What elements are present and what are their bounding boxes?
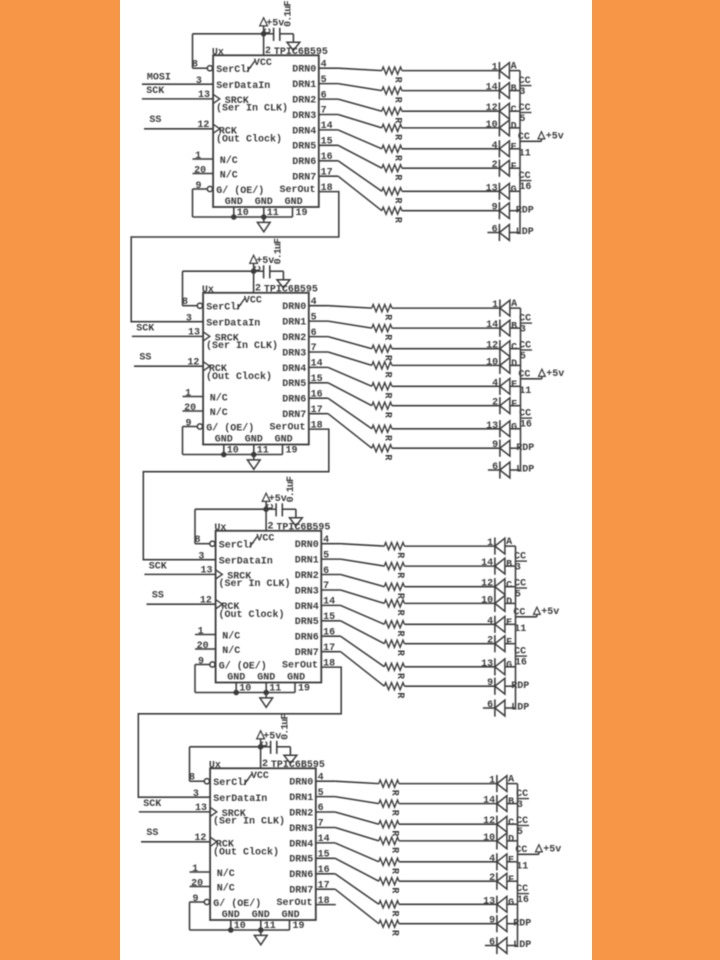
svg-text:DRN5: DRN5 <box>295 617 319 628</box>
svg-text:5: 5 <box>323 550 329 561</box>
svg-text:12: 12 <box>486 341 498 352</box>
svg-text:GND: GND <box>222 910 240 921</box>
svg-text:2: 2 <box>487 636 493 647</box>
svg-text:SerDataIn: SerDataIn <box>219 556 273 567</box>
svg-text:C: C <box>508 818 514 829</box>
svg-text:1: 1 <box>185 388 191 399</box>
svg-text:DRN0: DRN0 <box>292 65 316 76</box>
svg-text:N/C: N/C <box>217 868 235 880</box>
svg-text:R: R <box>392 77 403 83</box>
svg-text:0.1uF: 0.1uF <box>283 0 294 26</box>
svg-text:14: 14 <box>323 597 335 608</box>
svg-text:GND: GND <box>227 673 245 684</box>
svg-text:R: R <box>389 847 400 853</box>
svg-text:12: 12 <box>481 579 493 590</box>
svg-text:1: 1 <box>195 151 201 162</box>
svg-text:5: 5 <box>515 589 521 600</box>
svg-text:GND: GND <box>255 197 273 208</box>
svg-text:R: R <box>394 572 405 578</box>
svg-text:C: C <box>511 105 517 116</box>
svg-text:13: 13 <box>486 183 498 194</box>
svg-text:14: 14 <box>318 834 330 845</box>
svg-text:14: 14 <box>481 558 493 569</box>
svg-text:12: 12 <box>200 595 212 606</box>
svg-text:R: R <box>382 393 393 399</box>
svg-text:20: 20 <box>184 403 196 414</box>
svg-text:6: 6 <box>487 700 493 711</box>
svg-text:6: 6 <box>311 328 317 339</box>
svg-text:(Out Clock): (Out Clock) <box>219 609 285 621</box>
svg-text:G: G <box>511 422 517 433</box>
svg-text:TPIC6B595: TPIC6B595 <box>271 760 325 771</box>
svg-text:13: 13 <box>195 803 207 814</box>
svg-text:+5v: +5v <box>543 845 561 856</box>
svg-text:RDP: RDP <box>516 205 534 216</box>
svg-text:DRN7: DRN7 <box>282 410 306 421</box>
svg-text:11: 11 <box>516 862 528 873</box>
svg-text:10: 10 <box>481 595 493 606</box>
svg-text:R: R <box>394 631 405 637</box>
svg-text:SerOut: SerOut <box>282 661 318 672</box>
svg-text:DRN2: DRN2 <box>289 808 313 819</box>
svg-text:SS: SS <box>152 590 164 601</box>
svg-text:3: 3 <box>515 562 521 573</box>
svg-text:R: R <box>394 610 405 616</box>
svg-text:DRN2: DRN2 <box>295 571 319 582</box>
svg-text:9: 9 <box>192 894 198 905</box>
svg-text:12: 12 <box>194 833 206 844</box>
svg-text:SerClr: SerClr <box>219 539 255 551</box>
svg-text:GND: GND <box>215 435 233 446</box>
svg-text:DRN6: DRN6 <box>292 157 316 168</box>
svg-text:16: 16 <box>519 182 531 193</box>
svg-text:R: R <box>389 930 400 936</box>
svg-text:VCC: VCC <box>251 771 269 782</box>
svg-text:12: 12 <box>187 357 199 368</box>
svg-text:9: 9 <box>487 678 493 689</box>
svg-text:LDP: LDP <box>511 703 529 714</box>
svg-text:16: 16 <box>515 657 527 668</box>
svg-text:20: 20 <box>191 879 203 890</box>
svg-text:9: 9 <box>492 203 498 214</box>
svg-text:D: D <box>511 122 517 133</box>
svg-text:SerClr: SerClr <box>213 777 249 789</box>
svg-text:DRN7: DRN7 <box>292 173 316 184</box>
svg-text:5: 5 <box>517 827 523 838</box>
svg-text:0.1uF: 0.1uF <box>286 476 297 502</box>
svg-text:(Ser In CLK): (Ser In CLK) <box>219 578 291 590</box>
svg-text:GND: GND <box>287 673 305 684</box>
svg-text:GND: GND <box>257 673 275 684</box>
svg-text:SerOut: SerOut <box>276 898 312 909</box>
svg-text:N/C: N/C <box>220 170 238 182</box>
svg-text:E: E <box>511 380 517 391</box>
svg-text:2: 2 <box>492 398 498 409</box>
svg-text:3: 3 <box>198 551 204 562</box>
svg-text:R: R <box>389 868 400 874</box>
svg-text:12: 12 <box>486 103 498 114</box>
svg-text:R: R <box>394 593 405 599</box>
svg-text:DRN5: DRN5 <box>289 855 313 866</box>
svg-text:11: 11 <box>264 921 276 932</box>
svg-text:16: 16 <box>318 865 330 876</box>
svg-text:10: 10 <box>237 208 249 219</box>
svg-text:17: 17 <box>318 880 330 891</box>
svg-text:3: 3 <box>196 76 202 87</box>
svg-text:A: A <box>511 62 517 73</box>
svg-text:(Out Clock): (Out Clock) <box>213 847 279 859</box>
svg-text:3: 3 <box>193 789 199 800</box>
svg-text:C: C <box>511 342 517 353</box>
svg-text:6: 6 <box>323 566 329 577</box>
svg-text:LDP: LDP <box>513 940 531 951</box>
svg-text:7: 7 <box>318 819 324 830</box>
svg-text:F: F <box>508 875 514 886</box>
svg-text:6: 6 <box>321 90 327 101</box>
svg-text:8: 8 <box>182 297 188 308</box>
svg-text:1: 1 <box>487 538 493 549</box>
svg-text:SCK: SCK <box>146 86 164 97</box>
svg-text:R: R <box>392 217 403 223</box>
svg-text:N/C: N/C <box>210 407 228 419</box>
svg-text:11: 11 <box>257 446 269 457</box>
svg-text:9: 9 <box>185 419 191 430</box>
svg-text:5: 5 <box>321 75 327 86</box>
svg-text:Ux: Ux <box>212 48 224 59</box>
svg-text:TPIC6B595: TPIC6B595 <box>276 522 330 533</box>
svg-text:15: 15 <box>318 850 330 861</box>
svg-text:R: R <box>394 673 405 679</box>
svg-text:GND: GND <box>245 435 263 446</box>
svg-text:4: 4 <box>321 59 327 70</box>
svg-text:R: R <box>382 334 393 340</box>
svg-text:20: 20 <box>194 166 206 177</box>
svg-text:SerDataIn: SerDataIn <box>206 318 260 329</box>
svg-text:E: E <box>511 142 517 153</box>
svg-text:1: 1 <box>492 300 498 311</box>
svg-text:DRN4: DRN4 <box>289 839 313 850</box>
svg-text:10: 10 <box>486 357 498 368</box>
svg-text:DRN3: DRN3 <box>289 824 313 835</box>
svg-text:DRN1: DRN1 <box>292 80 316 91</box>
svg-text:4: 4 <box>311 297 317 308</box>
svg-text:5: 5 <box>520 351 526 362</box>
svg-text:16: 16 <box>520 419 532 430</box>
svg-text:1: 1 <box>489 776 495 787</box>
svg-text:N/C: N/C <box>217 883 235 895</box>
svg-text:G/ (OE/): G/ (OE/) <box>216 185 264 197</box>
svg-text:2: 2 <box>262 759 268 770</box>
svg-text:VCC: VCC <box>254 58 272 69</box>
svg-text:R: R <box>382 412 393 418</box>
svg-text:+5v: +5v <box>546 369 564 380</box>
svg-text:C: C <box>253 265 264 271</box>
svg-text:SCK: SCK <box>149 562 167 573</box>
svg-text:10: 10 <box>239 684 251 695</box>
svg-text:14: 14 <box>483 796 495 807</box>
svg-text:4: 4 <box>492 141 498 152</box>
svg-text:8: 8 <box>189 772 195 783</box>
svg-text:DRN3: DRN3 <box>295 586 319 597</box>
svg-text:R: R <box>392 117 403 123</box>
svg-text:VCC: VCC <box>244 295 262 306</box>
svg-text:R: R <box>392 198 403 204</box>
svg-text:16: 16 <box>517 895 529 906</box>
svg-text:4: 4 <box>323 535 329 546</box>
svg-text:20: 20 <box>197 641 209 652</box>
svg-text:(Ser In CLK): (Ser In CLK) <box>216 103 288 115</box>
svg-text:3: 3 <box>517 800 523 811</box>
svg-text:F: F <box>506 637 512 648</box>
svg-text:10: 10 <box>483 833 495 844</box>
svg-text:5: 5 <box>311 312 317 323</box>
svg-text:7: 7 <box>321 106 327 117</box>
svg-text:DRN0: DRN0 <box>282 302 306 313</box>
svg-text:G: G <box>508 898 514 909</box>
svg-text:19: 19 <box>296 208 308 219</box>
svg-text:DRN2: DRN2 <box>292 96 316 107</box>
svg-text:+5v: +5v <box>546 132 564 143</box>
svg-text:10: 10 <box>227 446 239 457</box>
svg-text:DRN0: DRN0 <box>289 778 313 789</box>
svg-text:R: R <box>389 911 400 917</box>
svg-text:4: 4 <box>487 616 493 627</box>
svg-text:DRN5: DRN5 <box>292 142 316 153</box>
svg-text:12: 12 <box>197 120 209 131</box>
svg-text:R: R <box>394 552 405 558</box>
svg-text:19: 19 <box>286 446 298 457</box>
svg-text:16: 16 <box>311 389 323 400</box>
svg-text:VCC: VCC <box>256 533 274 544</box>
svg-text:R: R <box>394 692 405 698</box>
svg-text:4: 4 <box>492 378 498 389</box>
svg-text:0.1uF: 0.1uF <box>273 238 284 264</box>
svg-text:R: R <box>394 650 405 656</box>
svg-text:6: 6 <box>489 938 495 949</box>
svg-text:15: 15 <box>321 137 333 148</box>
svg-text:R: R <box>382 435 393 441</box>
svg-text:DRN0: DRN0 <box>295 540 319 551</box>
svg-text:9: 9 <box>195 181 201 192</box>
svg-text:10: 10 <box>234 921 246 932</box>
svg-text:12: 12 <box>483 816 495 827</box>
svg-text:1: 1 <box>192 864 198 875</box>
svg-text:DRN4: DRN4 <box>292 126 316 137</box>
svg-text:5: 5 <box>519 114 525 125</box>
svg-text:D: D <box>511 359 517 370</box>
svg-text:A: A <box>508 775 514 786</box>
svg-text:DRN7: DRN7 <box>289 886 313 897</box>
svg-text:Ux: Ux <box>209 761 221 772</box>
svg-text:B: B <box>508 797 514 808</box>
svg-text:DRN1: DRN1 <box>295 556 319 567</box>
svg-text:6: 6 <box>492 225 498 236</box>
svg-text:R: R <box>392 97 403 103</box>
svg-text:3: 3 <box>519 87 525 98</box>
svg-text:RDP: RDP <box>511 681 529 692</box>
svg-text:SCK: SCK <box>136 324 154 335</box>
svg-text:R: R <box>389 887 400 893</box>
svg-text:R: R <box>392 174 403 180</box>
svg-text:16: 16 <box>323 628 335 639</box>
svg-text:R: R <box>382 454 393 460</box>
svg-text:13: 13 <box>483 896 495 907</box>
svg-text:SS: SS <box>146 828 158 839</box>
svg-text:DRN1: DRN1 <box>282 318 306 329</box>
svg-text:SerClr: SerClr <box>206 301 242 313</box>
svg-text:C: C <box>266 503 277 509</box>
svg-text:G/ (OE/): G/ (OE/) <box>206 422 254 434</box>
svg-text:GND: GND <box>252 910 270 921</box>
svg-text:7: 7 <box>311 343 317 354</box>
svg-text:1: 1 <box>492 63 498 74</box>
svg-text:SS: SS <box>149 115 161 126</box>
svg-text:SerDataIn: SerDataIn <box>213 794 267 805</box>
svg-text:7: 7 <box>323 581 329 592</box>
svg-text:DRN6: DRN6 <box>289 870 313 881</box>
svg-text:11: 11 <box>519 386 531 397</box>
svg-text:LDP: LDP <box>516 227 534 238</box>
svg-text:RDP: RDP <box>516 443 534 454</box>
svg-text:14: 14 <box>486 83 498 94</box>
svg-text:GND: GND <box>285 197 303 208</box>
svg-text:G/ (OE/): G/ (OE/) <box>219 660 267 672</box>
svg-text:11: 11 <box>519 149 531 160</box>
svg-text:15: 15 <box>323 612 335 623</box>
svg-text:13: 13 <box>481 659 493 670</box>
svg-text:R: R <box>389 790 400 796</box>
svg-text:F: F <box>511 399 517 410</box>
svg-text:17: 17 <box>321 167 333 178</box>
svg-text:(Ser In CLK): (Ser In CLK) <box>206 340 278 352</box>
svg-text:16: 16 <box>321 152 333 163</box>
svg-text:D: D <box>506 597 512 608</box>
svg-text:N/C: N/C <box>222 631 240 643</box>
svg-text:R: R <box>392 155 403 161</box>
svg-text:SerClr: SerClr <box>216 64 252 76</box>
svg-text:SerOut: SerOut <box>279 185 315 196</box>
svg-text:DRN7: DRN7 <box>295 648 319 659</box>
svg-text:10: 10 <box>486 120 498 131</box>
svg-text:N/C: N/C <box>220 155 238 167</box>
svg-text:DRN3: DRN3 <box>292 111 316 122</box>
svg-text:B: B <box>506 560 512 571</box>
svg-text:C: C <box>506 580 512 591</box>
svg-text:13: 13 <box>486 421 498 432</box>
svg-text:R: R <box>382 314 393 320</box>
svg-text:A: A <box>511 299 517 310</box>
svg-text:DRN5: DRN5 <box>282 379 306 390</box>
svg-text:GND: GND <box>282 910 300 921</box>
svg-text:GND: GND <box>275 435 293 446</box>
svg-text:2: 2 <box>265 46 271 57</box>
svg-text:DRN3: DRN3 <box>282 348 306 359</box>
svg-text:15: 15 <box>311 374 323 385</box>
svg-text:DRN4: DRN4 <box>282 364 306 375</box>
svg-text:R: R <box>389 830 400 836</box>
svg-text:DRN4: DRN4 <box>295 602 319 613</box>
svg-text:R: R <box>389 810 400 816</box>
svg-text:13: 13 <box>200 565 212 576</box>
svg-text:G/ (OE/): G/ (OE/) <box>213 898 261 910</box>
svg-text:6: 6 <box>318 803 324 814</box>
svg-text:2: 2 <box>489 873 495 884</box>
svg-text:14: 14 <box>321 121 333 132</box>
svg-text:14: 14 <box>486 320 498 331</box>
svg-text:(Out Clock): (Out Clock) <box>216 133 282 145</box>
svg-text:Ux: Ux <box>214 523 226 534</box>
svg-text:SerDataIn: SerDataIn <box>216 81 270 92</box>
svg-text:18: 18 <box>311 420 323 431</box>
svg-text:5: 5 <box>318 788 324 799</box>
svg-text:D: D <box>508 835 514 846</box>
svg-text:N/C: N/C <box>222 645 240 657</box>
svg-text:MOSI: MOSI <box>147 72 171 83</box>
svg-text:2: 2 <box>268 522 274 533</box>
svg-text:4: 4 <box>489 854 495 865</box>
svg-text:3: 3 <box>186 313 192 324</box>
svg-text:(Ser In CLK): (Ser In CLK) <box>213 816 285 828</box>
svg-text:TPIC6B595: TPIC6B595 <box>274 47 328 58</box>
svg-text:9: 9 <box>198 657 204 668</box>
svg-text:A: A <box>506 537 512 548</box>
svg-text:1: 1 <box>198 626 204 637</box>
svg-text:GND: GND <box>225 197 243 208</box>
svg-text:8: 8 <box>194 535 200 546</box>
svg-text:DRN1: DRN1 <box>289 793 313 804</box>
svg-text:18: 18 <box>323 658 335 669</box>
svg-text:C: C <box>260 741 271 747</box>
svg-text:R: R <box>382 355 393 361</box>
svg-text:9: 9 <box>492 440 498 451</box>
svg-text:F: F <box>511 162 517 173</box>
svg-text:(Out Clock): (Out Clock) <box>206 371 272 383</box>
svg-text:Ux: Ux <box>202 285 214 296</box>
svg-text:4: 4 <box>318 772 324 783</box>
svg-text:11: 11 <box>267 208 279 219</box>
svg-text:E: E <box>506 618 512 629</box>
svg-text:13: 13 <box>188 327 200 338</box>
svg-text:E: E <box>508 855 514 866</box>
svg-text:R: R <box>392 134 403 140</box>
svg-text:13: 13 <box>198 90 210 101</box>
svg-text:6: 6 <box>492 462 498 473</box>
svg-text:19: 19 <box>293 921 305 932</box>
svg-text:19: 19 <box>298 684 310 695</box>
svg-text:RDP: RDP <box>513 918 531 929</box>
svg-text:C: C <box>263 28 274 34</box>
svg-text:11: 11 <box>514 624 526 635</box>
svg-text:18: 18 <box>318 896 330 907</box>
svg-text:2: 2 <box>492 160 498 171</box>
svg-text:DRN6: DRN6 <box>282 395 306 406</box>
svg-text:B: B <box>511 84 517 95</box>
svg-text:0.1uF: 0.1uF <box>280 713 291 739</box>
svg-text:R: R <box>382 372 393 378</box>
svg-text:G: G <box>506 660 512 671</box>
svg-text:+5v: +5v <box>541 607 559 618</box>
svg-text:TPIC6B595: TPIC6B595 <box>264 284 318 295</box>
svg-text:B: B <box>511 322 517 333</box>
svg-text:11: 11 <box>269 684 281 695</box>
svg-text:G: G <box>511 185 517 196</box>
svg-text:LDP: LDP <box>516 465 534 476</box>
svg-text:9: 9 <box>489 916 495 927</box>
svg-text:3: 3 <box>520 324 526 335</box>
svg-text:17: 17 <box>323 643 335 654</box>
svg-text:17: 17 <box>311 405 323 416</box>
svg-text:8: 8 <box>192 59 198 70</box>
